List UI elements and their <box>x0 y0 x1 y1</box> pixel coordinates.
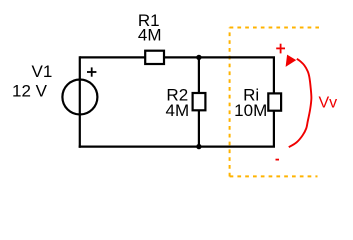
highlight box (dashed orange region) <box>230 28 319 177</box>
wire: R2 branch vertical <box>198 57 200 146</box>
resistor R2 <box>193 93 206 110</box>
V1 plus polarity mark <box>87 67 96 76</box>
node: bottom junction dot <box>196 144 201 149</box>
wire: Ri branch vertical <box>273 57 275 146</box>
annotation: red plus <box>276 44 285 54</box>
svg-text:10M: 10M <box>234 101 267 120</box>
resistor R1 <box>145 51 164 64</box>
voltage source V1 <box>62 80 97 115</box>
svg-text:Vv: Vv <box>319 94 338 111</box>
annotation: red minus <box>276 159 280 161</box>
wire: bottom horizontal <box>79 146 275 148</box>
annotation: red arc arrow Vv <box>289 59 312 147</box>
svg-text:4M: 4M <box>138 26 162 45</box>
arrowhead <box>286 55 297 67</box>
svg-text:V1: V1 <box>32 62 53 81</box>
node: top junction dot <box>196 55 201 60</box>
wire: left vertical <box>79 56 81 147</box>
wire: top horizontal left segment <box>80 56 145 58</box>
resistor Ri <box>268 93 281 110</box>
svg-text:4M: 4M <box>165 101 189 120</box>
svg-text:12 V: 12 V <box>12 82 48 101</box>
wire: top horizontal right segment <box>164 56 275 58</box>
